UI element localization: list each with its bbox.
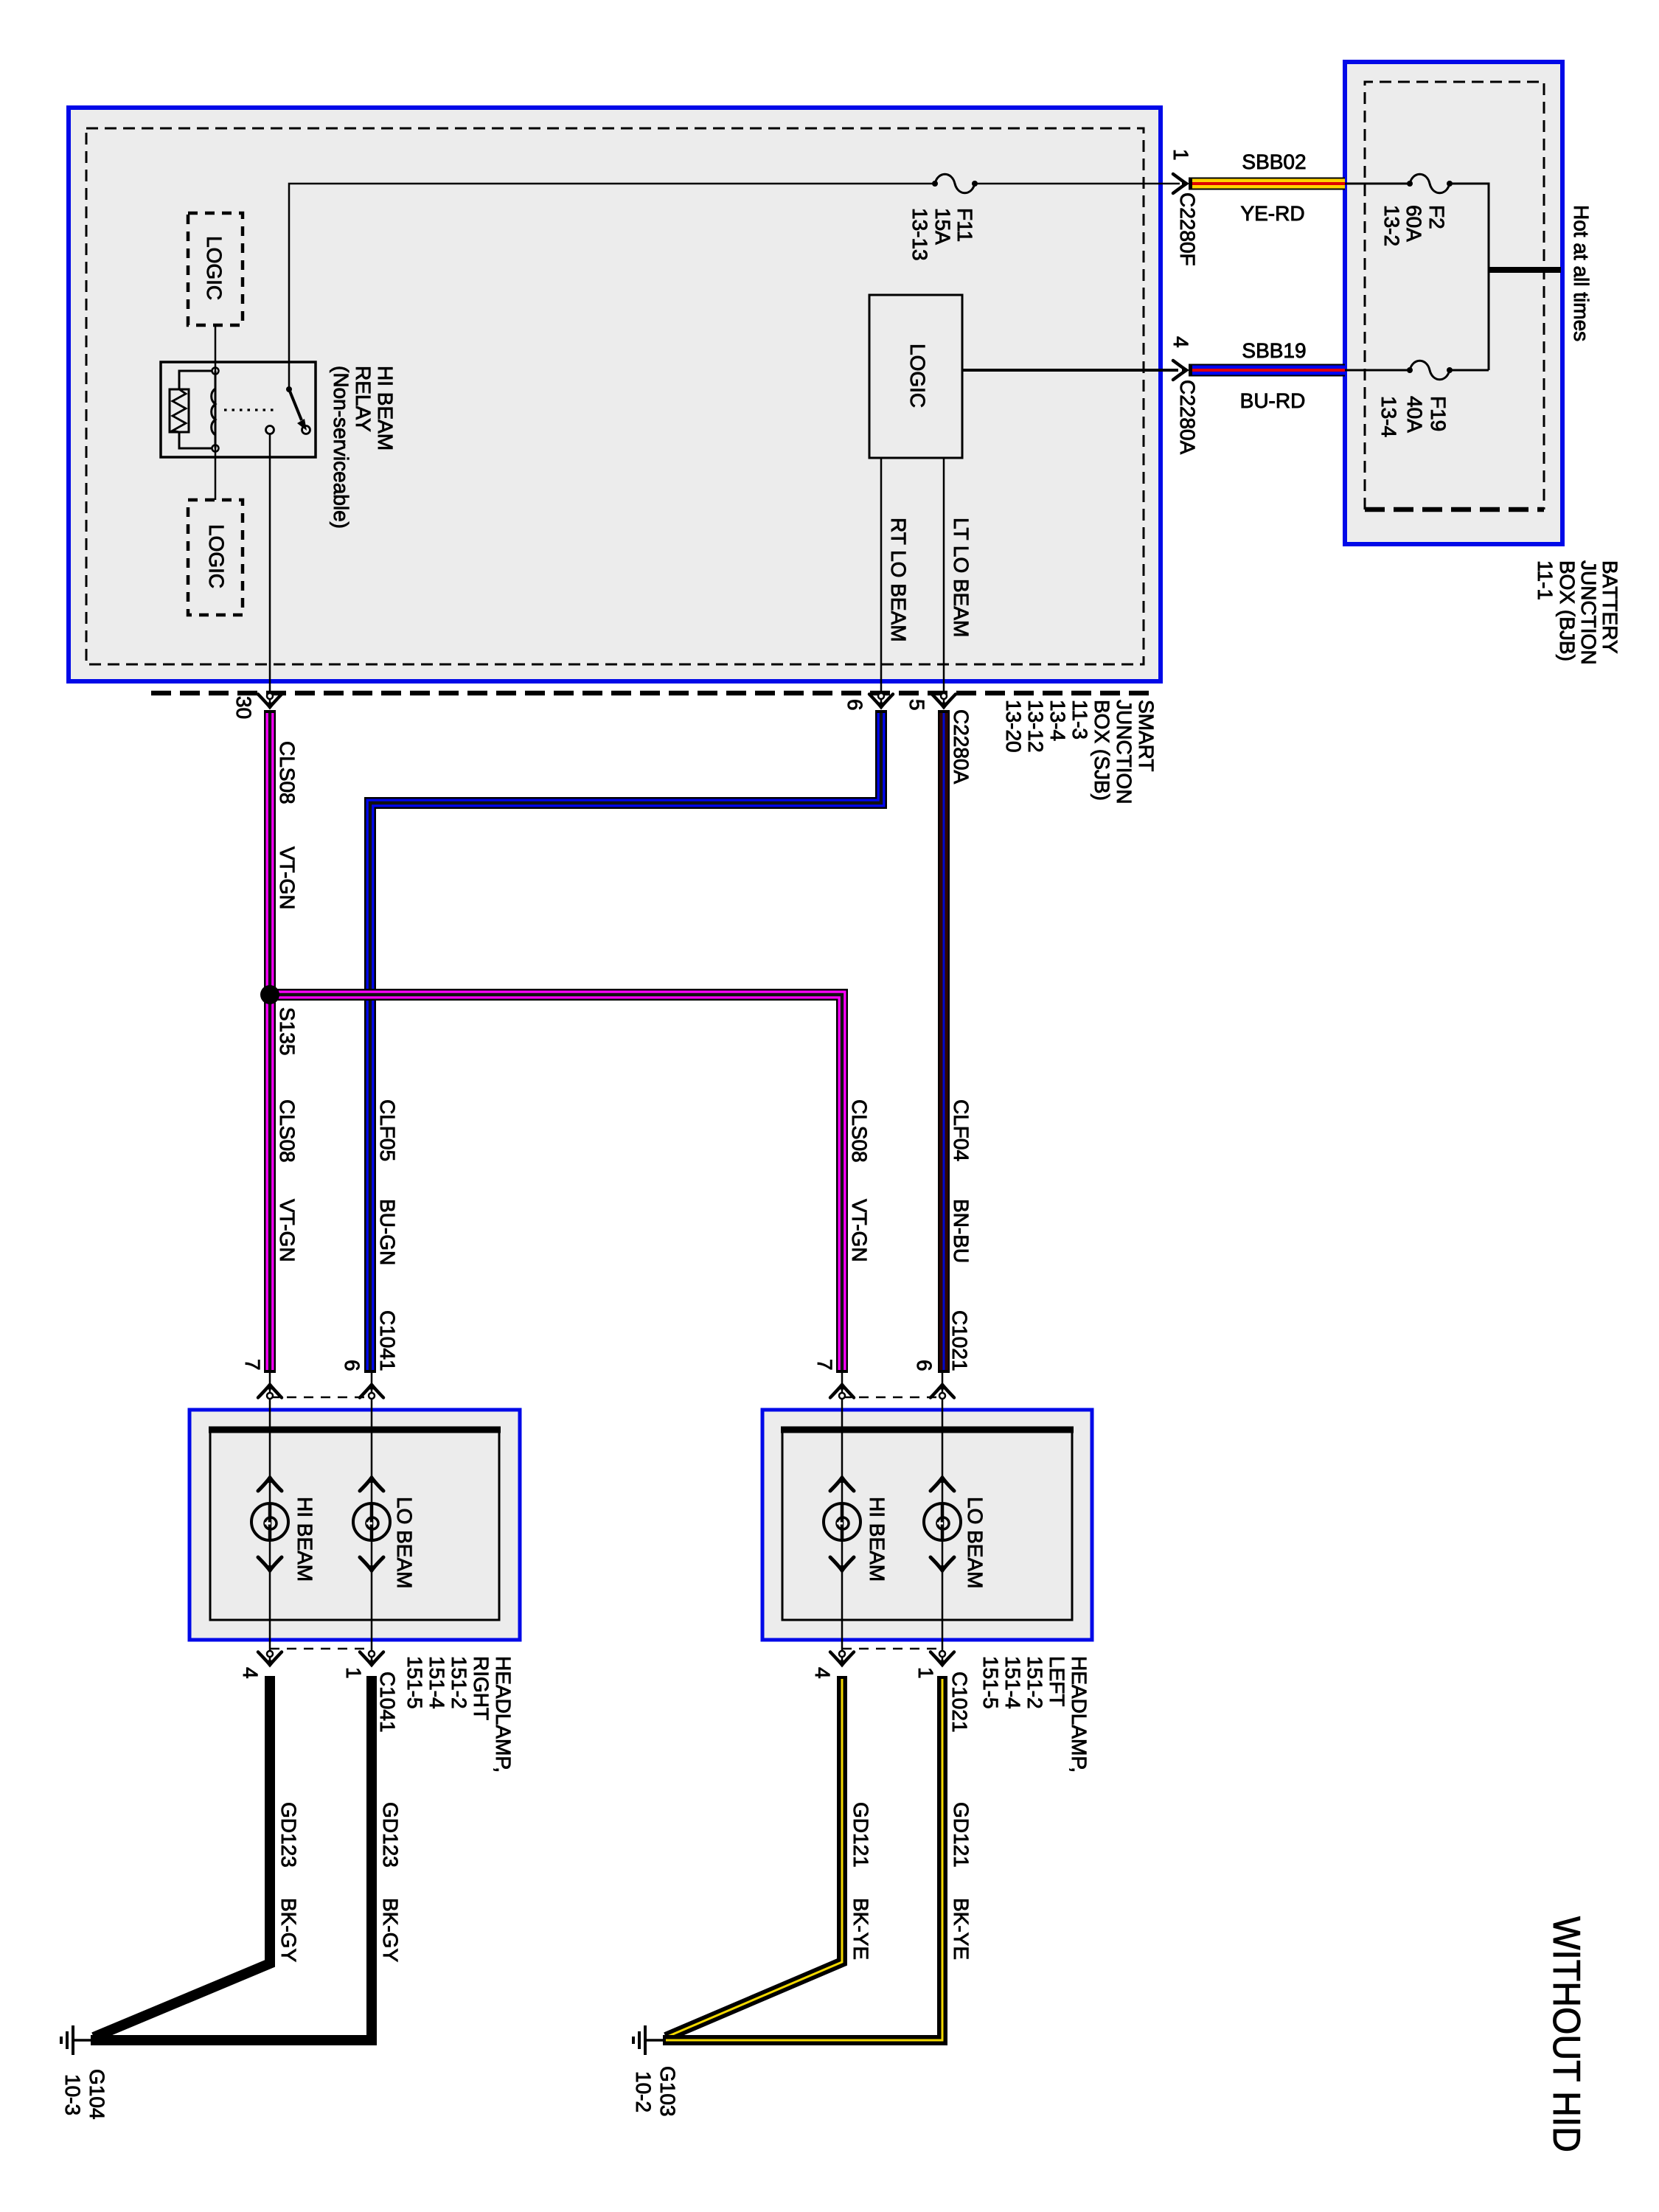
wire hot bus to fuse F19 <box>1450 369 1489 372</box>
svg-text:GD123: GD123 <box>379 1802 402 1868</box>
wire CLS08 branch dark stripe <box>270 995 842 1370</box>
relay switch pivot <box>286 386 292 392</box>
wire GD121 BK-YE from pin 1 to ground G103 outline <box>663 1676 942 2040</box>
LOGIC solid box <box>869 295 962 458</box>
svg-text:CLF05: CLF05 <box>376 1099 399 1161</box>
wire SBB19 blue band <box>1192 366 1345 375</box>
svg-text:SBB19: SBB19 <box>1242 339 1306 362</box>
svg-text:WITHOUT HID: WITHOUT HID <box>1545 1916 1587 2152</box>
wire SBB19 BU-RD outline <box>1189 364 1345 377</box>
wire relay coil to LOGIC lower <box>215 448 217 500</box>
svg-text:4: 4 <box>811 1667 834 1679</box>
svg-text:151-2: 151-2 <box>448 1656 470 1709</box>
svg-text:151-5: 151-5 <box>979 1656 1002 1709</box>
BJB inner dashed border bottom (thick connector face) <box>1365 507 1544 512</box>
svg-text:C1041: C1041 <box>376 1672 399 1733</box>
svg-text:LOGIC: LOGIC <box>203 236 226 300</box>
left HI BEAM bulb <box>824 1503 860 1540</box>
svg-text:C1041: C1041 <box>376 1310 399 1371</box>
svg-text:LO BEAM: LO BEAM <box>964 1497 987 1588</box>
headlamp right inner thick top edge <box>209 1427 501 1433</box>
ground label G104 / 10-3 <box>61 2069 108 2120</box>
svg-text:G104: G104 <box>86 2069 108 2120</box>
headlamp left inner thick top edge <box>781 1427 1074 1433</box>
wire LOGIC to pin 4 (SBB19 feed) <box>962 369 1178 372</box>
svg-text:151-4: 151-4 <box>1001 1656 1024 1709</box>
svg-text:13-13: 13-13 <box>908 208 931 261</box>
svg-text:60A: 60A <box>1402 205 1425 242</box>
wire GD121 pin1 yellow stripe <box>666 1679 942 2040</box>
left HI BEAM flow chevron up <box>830 1475 854 1491</box>
left headlamp connector dashed line C1021 (top) <box>842 1397 942 1399</box>
svg-text:LEFT: LEFT <box>1046 1656 1068 1706</box>
BJB name block: BATTERY / JUNCTION / BOX (BJB) / 11-1 <box>1534 560 1621 665</box>
splice S135 junction dot <box>260 985 279 1004</box>
svg-text:13-2: 13-2 <box>1380 205 1403 246</box>
fuse F11 <box>932 174 978 193</box>
svg-text:BK-GY: BK-GY <box>379 1898 402 1962</box>
wire LOGIC to pin 5 (LT LO BEAM) <box>943 458 945 706</box>
SJB name block: SMART / JUNCTION / BOX (SJB) / 11-3 / 13-4 / 13-12 / 13-20 <box>1002 700 1158 804</box>
svg-text:S135: S135 <box>276 1007 299 1055</box>
SJB inner dashed border <box>86 128 1144 664</box>
svg-text:GD121: GD121 <box>950 1802 973 1868</box>
svg-text:1: 1 <box>342 1667 365 1679</box>
svg-text:SMART: SMART <box>1135 700 1158 772</box>
wire CLS08 branch to left headlamp pin7 outline <box>270 995 842 1373</box>
wire GD123 BK-GY from pin 1 to ground G104 <box>91 1676 372 2040</box>
pin 5 arrow at SJB bottom <box>932 693 956 709</box>
wire F19 to BJB left edge <box>1345 369 1410 372</box>
fuse F19 label: F19 / 40A / 13-4 <box>1377 396 1450 437</box>
svg-text:HEADLAMP,: HEADLAMP, <box>1068 1656 1091 1773</box>
svg-text:6: 6 <box>844 699 866 711</box>
svg-text:CLS08: CLS08 <box>276 1099 299 1163</box>
pin 1 arrow (left lamp bottom) <box>931 1651 954 1666</box>
fuse F2 <box>1407 174 1453 193</box>
relay label: HI BEAM / RELAY / (Non-serviceable) <box>330 366 397 529</box>
svg-text:VT-GN: VT-GN <box>276 846 299 910</box>
svg-text:6: 6 <box>341 1360 364 1371</box>
svg-text:BK-YE: BK-YE <box>950 1898 973 1960</box>
wire from relay switch pivot up and right to pin 1 (left part) <box>289 184 935 389</box>
relay coil terminal bottom <box>212 445 219 452</box>
svg-text:HI BEAM: HI BEAM <box>374 366 397 451</box>
svg-text:151-2: 151-2 <box>1023 1656 1046 1709</box>
svg-text:13-12: 13-12 <box>1024 700 1047 753</box>
relay armature mechanical link (dotted) <box>224 408 277 411</box>
svg-text:1: 1 <box>1169 149 1192 161</box>
wire LOGIC upper to relay coil <box>215 325 217 371</box>
wire GD123 BK-GY from pin 4 to ground G104 <box>94 1676 270 2037</box>
wire from fuse F11 to pin 1 arrow <box>975 183 1180 185</box>
wire CLS08 dark stripe <box>268 713 271 1370</box>
wire GD121 BK-YE from pin 4 to ground G103 outline <box>666 1676 842 2037</box>
wire through right LO BEAM bulb <box>371 1373 373 1666</box>
svg-text:151-5: 151-5 <box>403 1656 426 1709</box>
svg-text:F2: F2 <box>1425 205 1448 229</box>
svg-text:YE-RD: YE-RD <box>1240 202 1304 225</box>
pin 1 arrow (right lamp bottom) <box>360 1651 383 1666</box>
pin 7 arrow (right lamp top) <box>258 1383 282 1399</box>
svg-text:HEADLAMP,: HEADLAMP, <box>492 1656 515 1773</box>
svg-text:C2280A: C2280A <box>950 709 973 785</box>
svg-text:C2280A: C2280A <box>1176 380 1199 455</box>
svg-text:4: 4 <box>1169 336 1192 348</box>
svg-text:7: 7 <box>241 1359 264 1371</box>
svg-text:HI BEAM: HI BEAM <box>866 1497 888 1582</box>
svg-text:SBB02: SBB02 <box>1242 150 1306 173</box>
wire SBB02 red stripe <box>1192 182 1345 185</box>
right HI BEAM flow chevron up <box>258 1475 282 1491</box>
BJB inner dashed border (top, left, right thin) <box>1365 82 1544 509</box>
svg-text:LT LO BEAM: LT LO BEAM <box>950 518 973 637</box>
svg-text:F11: F11 <box>953 208 976 242</box>
svg-text:5: 5 <box>905 699 928 711</box>
hot at all times feed bar <box>1489 267 1561 273</box>
relay resistor branch <box>179 371 212 448</box>
svg-text:C1021: C1021 <box>948 1310 971 1371</box>
svg-text:LOGIC: LOGIC <box>906 344 929 408</box>
headlamp right inner box <box>210 1430 499 1620</box>
battery junction box (BJB) outline <box>1345 62 1562 544</box>
left LO BEAM flow chevron up <box>931 1475 954 1491</box>
svg-text:VT-GN: VT-GN <box>848 1199 871 1262</box>
svg-text:BU-RD: BU-RD <box>1240 389 1306 412</box>
smart junction box (SJB) outline <box>69 108 1161 681</box>
svg-text:CLF04: CLF04 <box>950 1099 973 1161</box>
svg-text:LO BEAM: LO BEAM <box>393 1497 416 1588</box>
wire through left HI BEAM bulb <box>841 1373 844 1666</box>
wire CLF04 blue stripe <box>943 713 945 1370</box>
wire CLS08 branch magenta band <box>270 995 842 1370</box>
svg-text:LOGIC: LOGIC <box>205 524 228 588</box>
svg-text:C1021: C1021 <box>948 1672 971 1733</box>
pin 7 arrow (left lamp top) <box>830 1383 854 1399</box>
svg-text:G103: G103 <box>656 2066 679 2117</box>
svg-text:BOX (BJB): BOX (BJB) <box>1556 560 1579 661</box>
right LO BEAM bulb <box>353 1503 390 1540</box>
pin 6 arrow (right lamp top) <box>360 1383 383 1399</box>
svg-text:GD121: GD121 <box>849 1802 872 1868</box>
left LO BEAM flow chevron down <box>931 1557 954 1573</box>
headlamp left outline <box>762 1410 1092 1640</box>
svg-text:BU-GN: BU-GN <box>376 1199 399 1265</box>
svg-text:151-4: 151-4 <box>425 1656 448 1709</box>
wire CLS08 VT-GN main run (pin30 to right headlamp pin7) outline <box>264 710 276 1373</box>
wire CLF05 BU-GN outline (pin6 to right headlamp pin6) <box>370 710 881 1373</box>
relay coil winding <box>212 371 215 448</box>
svg-text:30: 30 <box>232 696 255 719</box>
hi beam relay box <box>161 362 316 457</box>
right HI BEAM bulb <box>251 1503 288 1540</box>
pin 4 arrow (right lamp bottom) <box>258 1651 282 1666</box>
pin 1 arrow at SJB right edge <box>1173 174 1188 193</box>
svg-text:15A: 15A <box>931 208 954 245</box>
svg-text:11-1: 11-1 <box>1534 560 1557 600</box>
svg-text:VT-GN: VT-GN <box>276 1199 299 1262</box>
wire SBB19 red stripe <box>1192 369 1345 372</box>
svg-text:F19: F19 <box>1427 396 1450 431</box>
wire F2 to hot bus <box>1450 184 1489 370</box>
fuse F19 <box>1407 361 1453 380</box>
svg-text:GD123: GD123 <box>277 1802 300 1868</box>
svg-text:13-4: 13-4 <box>1046 700 1069 741</box>
wire relay common to pin 30 <box>269 434 271 706</box>
svg-text:JUNCTION: JUNCTION <box>1113 700 1135 804</box>
svg-text:BN-BU: BN-BU <box>950 1199 973 1263</box>
svg-text:10-3: 10-3 <box>61 2074 84 2115</box>
left headlamp bottom connector dashed line C1021 <box>842 1648 942 1650</box>
relay common terminal <box>266 426 274 434</box>
right headlamp connector dashed line C1041 (top) <box>270 1397 372 1399</box>
wire LOGIC to pin 6 (RT LO BEAM) <box>880 458 883 706</box>
svg-text:1: 1 <box>914 1667 937 1679</box>
wire BJB left edge to fuse F2 <box>1345 183 1410 185</box>
svg-text:13-20: 13-20 <box>1002 700 1025 753</box>
LOGIC dashed box lower <box>188 500 243 615</box>
wire through right HI BEAM bulb <box>269 1373 271 1666</box>
pin 4 arrow (left lamp bottom) <box>830 1651 854 1666</box>
ground G104 <box>61 2025 91 2055</box>
fuse F2 label: F2 / 60A / 13-2 <box>1380 205 1448 246</box>
pin 4 arrow at SJB right edge <box>1173 361 1188 380</box>
ground G103 <box>633 2025 663 2055</box>
wire SBB02 yellow band <box>1192 179 1345 189</box>
svg-text:C2280F: C2280F <box>1176 192 1199 266</box>
wire CLS08 magenta band <box>266 713 274 1370</box>
fuse F11 label: F11 / 15A / 13-13 <box>908 208 976 261</box>
relay switch arm tip <box>297 419 307 431</box>
wire SBB02 YE-RD outline <box>1189 178 1345 190</box>
svg-text:(Non-serviceable): (Non-serviceable) <box>330 366 352 529</box>
wire CLF05 dark stripe <box>370 713 881 1370</box>
svg-text:BOX (SJB): BOX (SJB) <box>1091 700 1113 801</box>
svg-text:40A: 40A <box>1403 396 1426 433</box>
svg-text:CLS08: CLS08 <box>848 1099 871 1163</box>
svg-text:7: 7 <box>813 1359 836 1371</box>
headlamp left inner box <box>782 1430 1072 1620</box>
svg-text:JUNCTION: JUNCTION <box>1577 560 1600 665</box>
svg-text:RIGHT: RIGHT <box>470 1656 493 1720</box>
svg-text:RELAY: RELAY <box>352 366 375 432</box>
ground label G103 / 10-2 <box>632 2066 679 2117</box>
relay switch arm <box>289 389 302 420</box>
svg-text:BATTERY: BATTERY <box>1599 560 1621 654</box>
relay switch contact <box>302 426 310 434</box>
pin 6 arrow at SJB bottom <box>869 693 893 709</box>
LOGIC dashed box upper <box>188 213 243 325</box>
left LO BEAM bulb <box>924 1503 961 1540</box>
pin 30 arrow at SJB bottom <box>258 693 282 709</box>
SJB bottom connector dashed line C2280A <box>151 691 1154 696</box>
headlamp right outline <box>189 1410 520 1640</box>
right LO BEAM flow chevron down <box>360 1557 383 1573</box>
right LO BEAM flow chevron up <box>360 1475 383 1491</box>
right headlamp bottom connector dashed line C1041 <box>270 1648 372 1650</box>
pin 6 arrow (left lamp top) <box>931 1383 954 1399</box>
svg-text:4: 4 <box>239 1667 262 1679</box>
wire GD121 pin4 yellow stripe <box>666 1679 842 2037</box>
relay resistor (boxed zigzag) <box>170 389 189 432</box>
svg-text:CLS08: CLS08 <box>276 741 299 804</box>
left HI BEAM flow chevron down <box>830 1557 854 1573</box>
svg-text:BK-YE: BK-YE <box>849 1898 872 1960</box>
relay coil terminal top <box>212 368 219 375</box>
left headlamp name block: HEADLAMP, / LEFT / 151-2 / 151-4 / 151-5 <box>979 1656 1091 1773</box>
svg-text:Hot at all times: Hot at all times <box>1570 205 1593 341</box>
svg-text:RT LO BEAM: RT LO BEAM <box>887 518 910 642</box>
svg-text:HI BEAM: HI BEAM <box>293 1497 316 1582</box>
svg-text:13-4: 13-4 <box>1377 396 1400 437</box>
right headlamp name block: HEADLAMP, / RIGHT / 151-2 / 151-4 / 151-5 <box>403 1656 515 1773</box>
wire CLF04 BN-BU outline (pin5 to left headlamp pin6) <box>938 710 950 1373</box>
wire CLF04 brown band <box>939 713 948 1370</box>
svg-text:10-2: 10-2 <box>632 2071 655 2112</box>
wire CLF05 blue band <box>370 713 881 1370</box>
svg-text:11-3: 11-3 <box>1068 700 1091 740</box>
right HI BEAM flow chevron down <box>258 1557 282 1573</box>
svg-text:BK-GY: BK-GY <box>277 1898 300 1962</box>
svg-text:6: 6 <box>913 1360 936 1371</box>
wire through left LO BEAM bulb <box>942 1373 944 1666</box>
